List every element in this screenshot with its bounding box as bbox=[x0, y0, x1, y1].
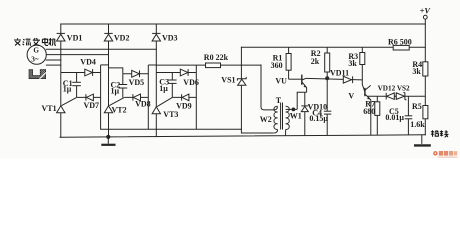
svg-text:W2: W2 bbox=[260, 115, 272, 124]
svg-text:VD1: VD1 bbox=[67, 33, 83, 42]
svg-text:V: V bbox=[348, 92, 354, 101]
svg-text:R0 22k: R0 22k bbox=[204, 53, 229, 62]
svg-text:VT1: VT1 bbox=[42, 104, 57, 113]
svg-text:R6 500: R6 500 bbox=[388, 38, 412, 47]
svg-text:360: 360 bbox=[271, 61, 283, 70]
svg-text:0.01μ: 0.01μ bbox=[385, 113, 404, 122]
svg-text:3~: 3~ bbox=[31, 56, 39, 64]
svg-text:VD6: VD6 bbox=[183, 78, 199, 87]
svg-text:VD12 VS2: VD12 VS2 bbox=[378, 85, 410, 93]
svg-text:VD8: VD8 bbox=[135, 100, 151, 109]
svg-text:VD5: VD5 bbox=[129, 78, 145, 87]
svg-text:2k: 2k bbox=[311, 57, 320, 66]
svg-text:G: G bbox=[33, 47, 39, 55]
svg-text:R5: R5 bbox=[412, 102, 422, 111]
svg-text:VD7: VD7 bbox=[84, 101, 100, 110]
svg-text:1μ: 1μ bbox=[63, 85, 72, 94]
svg-text:VD4: VD4 bbox=[80, 57, 96, 66]
svg-text:W1: W1 bbox=[290, 112, 302, 121]
svg-text:3k: 3k bbox=[348, 59, 357, 68]
svg-text:VD2: VD2 bbox=[114, 33, 130, 42]
svg-text:1μ: 1μ bbox=[111, 86, 120, 95]
svg-text:VT3: VT3 bbox=[163, 110, 178, 119]
svg-text:VD11: VD11 bbox=[330, 69, 349, 78]
svg-text:VS1: VS1 bbox=[221, 76, 235, 85]
svg-text:680: 680 bbox=[363, 107, 375, 116]
svg-text:3k: 3k bbox=[412, 67, 421, 76]
svg-text:0.15μ: 0.15μ bbox=[309, 114, 328, 123]
svg-text:VT2: VT2 bbox=[112, 106, 127, 115]
svg-text:1.6k: 1.6k bbox=[410, 120, 425, 129]
svg-text:T: T bbox=[276, 96, 282, 105]
svg-text:+V: +V bbox=[420, 7, 432, 16]
svg-text:1μ: 1μ bbox=[159, 84, 168, 93]
svg-text:VD3: VD3 bbox=[162, 33, 178, 42]
svg-text:VU: VU bbox=[275, 77, 287, 86]
